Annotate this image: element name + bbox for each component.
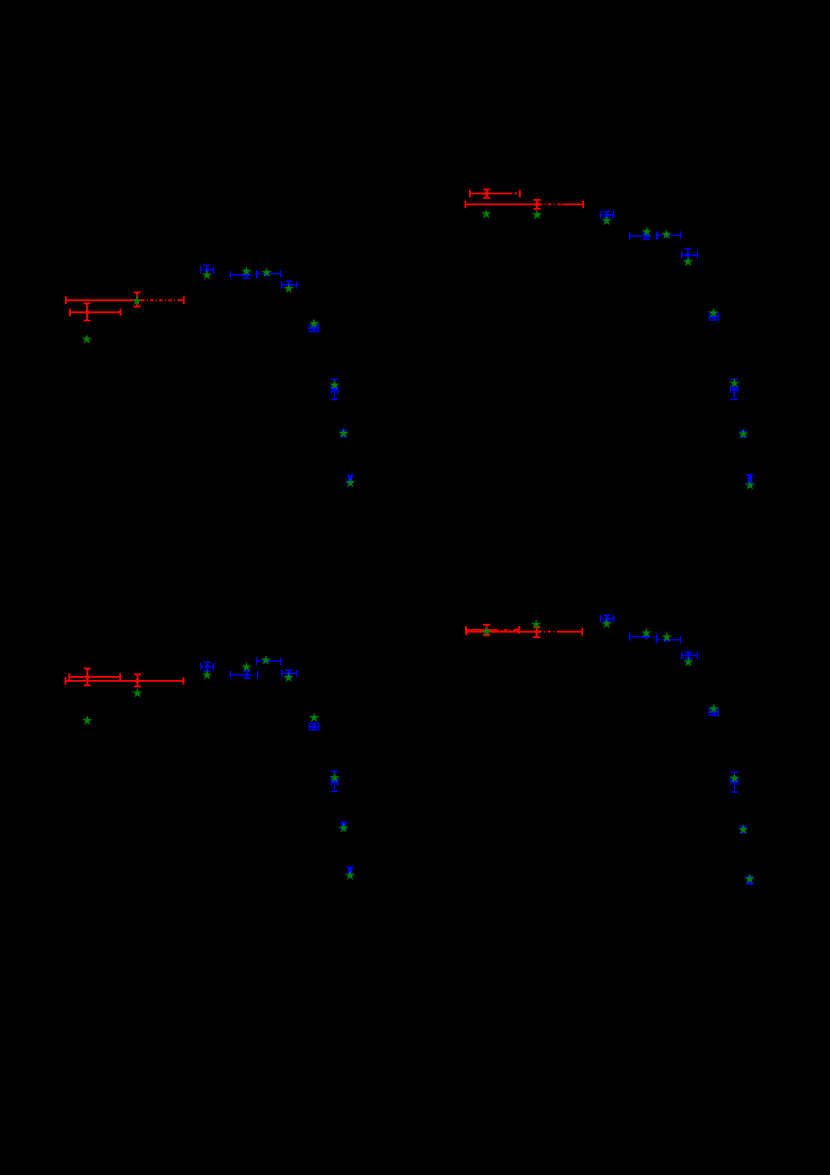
green star TL-S2 below red R2 xyxy=(83,335,92,343)
green star TL-S7 xyxy=(310,319,319,327)
green star BL-S3 xyxy=(203,671,212,679)
green star BR-S5 xyxy=(663,633,672,641)
green star BL-S5 xyxy=(262,656,271,664)
green star TR-S8 xyxy=(730,379,739,387)
green star TR-S10 xyxy=(746,481,755,489)
green star TL-S4 xyxy=(242,267,251,275)
blue point TL-B5 xyxy=(309,324,318,332)
green star TR-S4 xyxy=(643,227,652,235)
green star BR-S7 xyxy=(709,704,718,712)
blue point TL-B6 xyxy=(331,379,338,399)
blue point BL-B3 xyxy=(257,657,281,665)
green star TL-S9 xyxy=(339,429,348,437)
blue point TR-B2 xyxy=(630,232,657,240)
red point TL-R2 xyxy=(70,303,121,320)
green star TR-S9 xyxy=(739,430,748,438)
red point BL-R2 long bar xyxy=(66,674,184,686)
red point BR-R1 xyxy=(466,625,519,635)
blue point TR-B1 xyxy=(600,211,613,219)
green star TL-S8 xyxy=(330,381,339,389)
green star BL-S10 xyxy=(346,871,355,879)
blue point TR-B6 xyxy=(731,379,738,399)
green star TL-S3 xyxy=(203,271,212,279)
green star TR-S7 xyxy=(709,309,718,317)
green star BL-S6 xyxy=(284,673,293,681)
blue point BR-B6 xyxy=(731,772,738,792)
blue point BL-B2 xyxy=(230,671,257,679)
blue point TR-B8 xyxy=(746,474,753,483)
blue point TL-B8 xyxy=(347,475,354,484)
red point TL-R1 long bar xyxy=(66,292,184,306)
green star BR-S2 above red R2 xyxy=(532,620,541,628)
red point TR-R1 xyxy=(470,189,520,197)
green star BL-S9 xyxy=(339,824,348,832)
blue point BR-B1 xyxy=(600,615,613,623)
green star BR-S8 xyxy=(730,774,739,782)
blue point BR-B4 xyxy=(682,652,698,660)
red point BR-R2 long bar xyxy=(467,627,583,637)
green star BL-S8 xyxy=(330,774,339,782)
blue point BR-B5 xyxy=(709,708,718,716)
green star TL-S6 xyxy=(285,284,294,292)
blue point BR-B8 xyxy=(746,876,753,884)
blue point TL-B4 xyxy=(282,281,297,289)
red point TR-R2 long bar xyxy=(465,200,583,209)
green star TL-S5 xyxy=(262,268,271,276)
green star TR-S1 xyxy=(482,210,491,218)
blue point BL-B5 xyxy=(309,723,318,731)
blue point TR-B7 xyxy=(740,430,747,438)
green star BL-S1 xyxy=(83,716,92,724)
blue point BL-B1 xyxy=(201,662,214,671)
green star TL-S10 xyxy=(346,478,355,486)
blue point BL-B7 xyxy=(340,821,347,829)
green star BL-S4 xyxy=(242,663,251,671)
blue point TL-B1 xyxy=(201,265,214,274)
green star TR-S2 xyxy=(533,210,542,218)
blue point TR-B4 xyxy=(682,249,698,261)
blue point BL-B6 xyxy=(331,772,338,792)
green star TR-S5 xyxy=(662,230,671,238)
blue point TL-B3 xyxy=(257,270,281,278)
blue point BR-B2 xyxy=(630,633,657,641)
green star TR-S3 xyxy=(602,216,611,224)
green star BR-S1 on red R1 xyxy=(482,627,491,635)
blue point BL-B4 xyxy=(282,670,297,678)
green star BR-S4 xyxy=(642,629,651,637)
blue point TR-B5 xyxy=(709,313,718,321)
green star BL-S2 xyxy=(133,689,142,697)
red point BL-R1 xyxy=(69,669,120,686)
green star TL-S1 on red R1 xyxy=(133,297,142,305)
green star BR-S10 xyxy=(745,875,754,883)
green star BR-S6 xyxy=(684,658,693,666)
green star TR-S6 xyxy=(684,257,693,265)
blue point BL-B8 xyxy=(346,867,353,875)
blue point TL-B2 xyxy=(230,271,257,279)
blue point TR-B3 xyxy=(658,231,681,239)
green star BL-S7 xyxy=(310,713,319,721)
green star BR-S3 xyxy=(602,619,611,627)
blue point BR-B3 xyxy=(657,636,681,644)
green star BR-S9 xyxy=(739,825,748,833)
blue point TL-B7 xyxy=(340,430,347,438)
blue point BR-B7 xyxy=(740,826,747,834)
